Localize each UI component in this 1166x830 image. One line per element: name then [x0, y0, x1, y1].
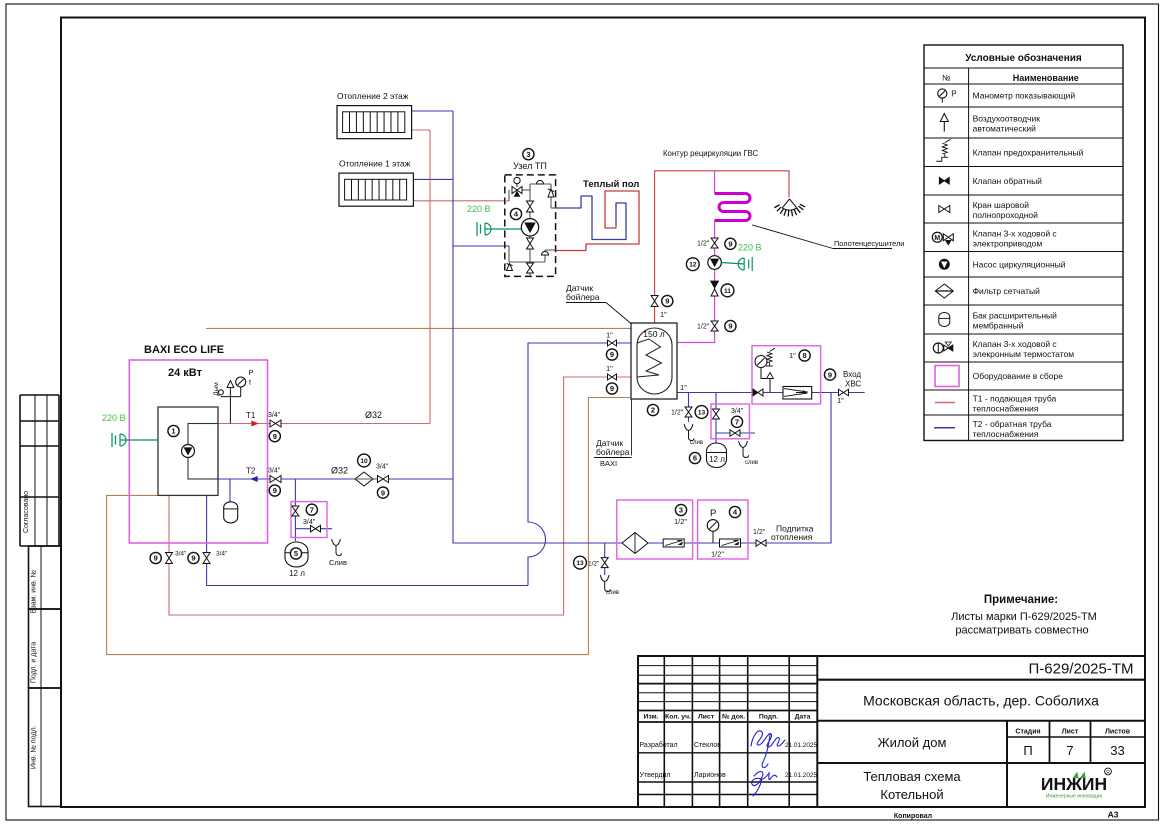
- svg-text:Теплый пол: Теплый пол: [583, 179, 639, 190]
- svg-text:Стадия: Стадия: [1015, 729, 1040, 736]
- svg-text:9: 9: [610, 350, 614, 359]
- svg-text:220 В: 220 В: [102, 413, 126, 423]
- svg-text:T1: T1: [246, 411, 256, 420]
- svg-text:Согласовано: Согласовано: [23, 491, 30, 533]
- svg-text:Кран шаровой: Кран шаровой: [973, 200, 1030, 210]
- svg-text:Кол. уч.: Кол. уч.: [665, 714, 691, 721]
- svg-text:T2: T2: [246, 467, 256, 476]
- svg-text:1": 1": [606, 364, 613, 373]
- svg-text:Клапан обратный: Клапан обратный: [973, 176, 1043, 186]
- svg-text:3/4": 3/4": [268, 468, 281, 475]
- svg-text:Разработал: Разработал: [640, 741, 678, 749]
- svg-text:12 л: 12 л: [709, 455, 725, 464]
- svg-text:слив: слив: [690, 440, 703, 446]
- svg-text:Оборудование в сборе: Оборудование в сборе: [973, 371, 1064, 381]
- svg-text:M: M: [934, 235, 940, 242]
- svg-text:5: 5: [294, 549, 298, 558]
- svg-text:Отопление 1 этаж: Отопление 1 этаж: [339, 159, 411, 169]
- svg-text:Жилой дом: Жилой дом: [878, 735, 947, 750]
- svg-text:3: 3: [526, 150, 530, 159]
- svg-text:7: 7: [310, 505, 314, 514]
- svg-text:7: 7: [735, 418, 739, 427]
- svg-text:1": 1": [789, 351, 796, 360]
- svg-text:Примечание:: Примечание:: [984, 594, 1058, 606]
- svg-text:1: 1: [171, 427, 175, 436]
- svg-text:3/4": 3/4": [303, 519, 316, 526]
- svg-text:9: 9: [381, 488, 385, 497]
- svg-text:Контур рециркуляции ГВС: Контур рециркуляции ГВС: [663, 149, 758, 158]
- svg-text:отопления: отопления: [771, 532, 813, 542]
- svg-text:6: 6: [693, 454, 697, 463]
- svg-text:слив: слив: [745, 460, 758, 466]
- svg-text:ХВС: ХВС: [845, 380, 861, 389]
- svg-text:Насос циркуляционный: Насос циркуляционный: [973, 259, 1066, 269]
- svg-text:11: 11: [724, 288, 731, 295]
- svg-text:220 В: 220 В: [467, 204, 491, 214]
- svg-text:Дым: Дым: [213, 382, 220, 396]
- svg-text:Ларионов: Ларионов: [694, 772, 726, 779]
- svg-text:Утвердил: Утвердил: [640, 772, 671, 779]
- svg-text:9: 9: [728, 240, 732, 249]
- svg-text:Т2 - обратная труба: Т2 - обратная труба: [973, 419, 1052, 429]
- svg-text:Отопление 2 этаж: Отопление 2 этаж: [337, 91, 409, 101]
- svg-text:Котельной: Котельной: [880, 787, 943, 802]
- svg-text:полнопроходной: полнопроходной: [973, 210, 1039, 220]
- svg-text:1": 1": [680, 383, 687, 392]
- svg-text:слив: слив: [606, 590, 619, 596]
- svg-text:21.01.2025: 21.01.2025: [785, 772, 817, 779]
- svg-text:1/2": 1/2": [671, 410, 684, 417]
- svg-text:P: P: [710, 508, 716, 519]
- svg-text:Условные обозначения: Условные обозначения: [965, 52, 1082, 64]
- svg-text:Воздухоотводчик: Воздухоотводчик: [973, 114, 1041, 124]
- svg-text:12: 12: [689, 262, 697, 269]
- svg-text:3/4": 3/4": [175, 551, 187, 558]
- svg-text:9: 9: [728, 322, 732, 331]
- svg-text:Фильтр сетчатый: Фильтр сетчатый: [973, 286, 1040, 296]
- svg-text:33: 33: [1110, 743, 1124, 758]
- svg-text:Московская область, дер. Собол: Московская область, дер. Соболиха: [863, 693, 1099, 709]
- svg-text:Клапан предохранительный: Клапан предохранительный: [973, 147, 1084, 157]
- svg-text:9: 9: [273, 432, 277, 441]
- svg-text:автоматический: автоматический: [973, 124, 1036, 134]
- svg-text:бойлера: бойлера: [566, 292, 600, 302]
- svg-text:П: П: [1023, 743, 1032, 758]
- svg-text:Листов: Листов: [1105, 729, 1131, 736]
- svg-text:№ док.: № док.: [722, 714, 745, 721]
- svg-text:1": 1": [660, 310, 667, 319]
- svg-text:бойлера: бойлера: [596, 447, 630, 457]
- svg-text:24 кВт: 24 кВт: [168, 367, 203, 379]
- svg-text:Лист: Лист: [698, 714, 715, 721]
- svg-text:2: 2: [651, 406, 655, 415]
- svg-text:Инв. № подл.: Инв. № подл.: [30, 725, 37, 769]
- svg-text:теплоснабжения: теплоснабжения: [973, 429, 1039, 439]
- svg-text:Листы марки П-629/2025-ТМ: Листы марки П-629/2025-ТМ: [951, 611, 1097, 623]
- svg-text:Инженерные инновации: Инженерные инновации: [1046, 794, 1102, 800]
- svg-text:21.01.2025: 21.01.2025: [785, 742, 817, 749]
- svg-text:1/2": 1/2": [697, 324, 710, 331]
- svg-text:Дата: Дата: [795, 714, 811, 721]
- svg-text:10: 10: [360, 458, 368, 465]
- svg-text:Клапан 3-х ходовой с: Клапан 3-х ходовой с: [973, 228, 1058, 238]
- svg-text:7: 7: [1066, 743, 1073, 758]
- svg-text:3/4": 3/4": [731, 408, 744, 415]
- svg-text:Вход: Вход: [843, 370, 861, 379]
- svg-text:Копировал: Копировал: [894, 813, 932, 820]
- svg-text:9: 9: [610, 384, 614, 393]
- svg-text:150 л: 150 л: [643, 329, 665, 339]
- svg-text:мембранный: мембранный: [973, 321, 1024, 331]
- svg-text:1": 1": [606, 331, 613, 340]
- svg-text:P: P: [249, 368, 254, 377]
- svg-text:9: 9: [828, 370, 832, 379]
- svg-text:Изм.: Изм.: [643, 714, 658, 721]
- svg-text:1/2": 1/2": [711, 550, 724, 559]
- svg-text:Манометр показывающий: Манометр показывающий: [973, 91, 1076, 101]
- svg-text:теплоснабжения: теплоснабжения: [973, 404, 1039, 414]
- svg-text:Клапан 3-х ходовой с: Клапан 3-х ходовой с: [973, 339, 1058, 349]
- svg-text:Ø32: Ø32: [331, 466, 348, 476]
- svg-text:BAXI ECO LIFE: BAXI ECO LIFE: [144, 344, 224, 356]
- svg-text:Наименование: Наименование: [1013, 73, 1079, 83]
- svg-text:Слив: Слив: [329, 558, 347, 567]
- svg-text:Т1 - подающая труба: Т1 - подающая труба: [973, 394, 1057, 404]
- svg-text:8: 8: [803, 351, 807, 360]
- svg-text:рассматривать совместно: рассматривать совместно: [955, 625, 1088, 637]
- svg-text:А3: А3: [1108, 810, 1119, 820]
- svg-text:13: 13: [698, 409, 706, 416]
- svg-text:Подп. и дата: Подп. и дата: [30, 642, 37, 683]
- svg-text:1/2": 1/2": [753, 529, 766, 536]
- svg-text:Лист: Лист: [1062, 729, 1079, 736]
- svg-text:220 В: 220 В: [738, 243, 762, 253]
- svg-text:9: 9: [665, 297, 669, 306]
- svg-text:Полотенцесушители: Полотенцесушители: [834, 239, 904, 248]
- svg-text:BAXI: BAXI: [600, 459, 617, 468]
- svg-text:1/2": 1/2": [588, 561, 600, 568]
- svg-text:3/4": 3/4": [376, 464, 389, 471]
- svg-text:Ø32: Ø32: [365, 410, 382, 420]
- svg-text:П-629/2025-ТМ: П-629/2025-ТМ: [1029, 661, 1134, 678]
- svg-text:Бак расширительный: Бак расширительный: [973, 311, 1058, 321]
- svg-text:3/4": 3/4": [268, 412, 281, 419]
- svg-text:3/4": 3/4": [216, 551, 228, 558]
- svg-text:Узел ТП: Узел ТП: [513, 161, 547, 171]
- svg-text:1/2": 1/2": [697, 241, 710, 248]
- svg-text:элекронным термостатом: элекронным термостатом: [973, 349, 1075, 359]
- svg-text:P: P: [951, 90, 956, 99]
- svg-text:9: 9: [273, 486, 277, 495]
- svg-text:13: 13: [576, 560, 584, 567]
- svg-text:1/2": 1/2": [674, 517, 687, 526]
- svg-text:Подп.: Подп.: [759, 714, 778, 721]
- svg-text:Взам. инв. №: Взам. инв. №: [30, 570, 37, 613]
- svg-text:Тепловая схема: Тепловая схема: [863, 769, 961, 784]
- svg-text:электроприводом: электроприводом: [973, 238, 1043, 248]
- svg-text:9: 9: [154, 554, 158, 563]
- svg-text:9: 9: [191, 554, 195, 563]
- svg-text:3: 3: [679, 506, 683, 515]
- svg-text:R: R: [1106, 770, 1110, 776]
- svg-text:Стеклов: Стеклов: [694, 742, 721, 749]
- svg-text:№: №: [942, 74, 951, 83]
- svg-text:12 л: 12 л: [289, 569, 305, 578]
- svg-text:1": 1": [837, 396, 844, 405]
